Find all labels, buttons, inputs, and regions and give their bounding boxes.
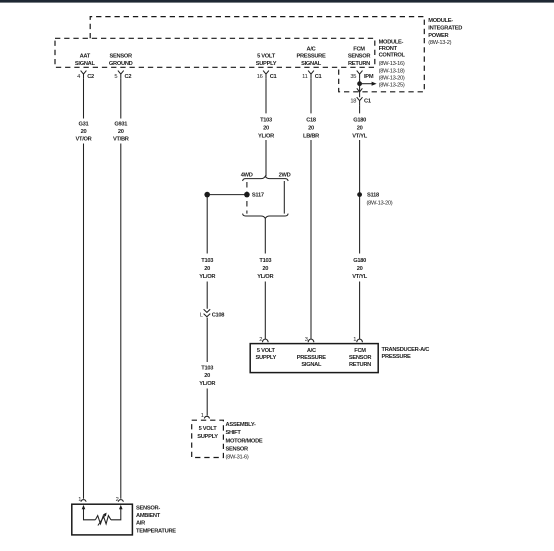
svg-text:FCM: FCM	[353, 46, 365, 52]
svg-text:AMBIENT: AMBIENT	[136, 513, 161, 519]
svg-text:SUPPLY: SUPPLY	[256, 61, 277, 67]
svg-text:(8W-13-16): (8W-13-16)	[379, 61, 405, 67]
svg-text:RETURN: RETURN	[348, 61, 370, 67]
svg-text:SUPPLY: SUPPLY	[256, 355, 277, 361]
svg-text:T103: T103	[201, 366, 213, 372]
svg-text:YL/OR: YL/OR	[258, 134, 274, 140]
svg-text:1: 1	[78, 497, 81, 503]
svg-text:SIGNAL: SIGNAL	[301, 362, 322, 368]
svg-text:A/C: A/C	[307, 46, 316, 52]
svg-text:5: 5	[114, 74, 117, 80]
svg-text:5 VOLT: 5 VOLT	[199, 426, 218, 432]
svg-text:SENSOR: SENSOR	[349, 355, 372, 361]
svg-text:VT/OR: VT/OR	[76, 137, 92, 143]
svg-text:S118: S118	[367, 193, 379, 199]
svg-text:C1: C1	[315, 74, 322, 80]
svg-text:AIR: AIR	[136, 521, 145, 527]
svg-text:5 VOLT: 5 VOLT	[257, 348, 276, 354]
svg-text:A/C: A/C	[307, 348, 316, 354]
svg-text:INTEGRATED: INTEGRATED	[428, 25, 462, 31]
svg-text:1: 1	[201, 413, 204, 419]
svg-text:11: 11	[302, 74, 307, 80]
svg-text:T103: T103	[201, 258, 213, 264]
svg-text:CONTROL: CONTROL	[379, 53, 406, 59]
svg-text:20: 20	[263, 125, 269, 131]
svg-text:PRESSURE: PRESSURE	[297, 355, 327, 361]
svg-text:(8W-13-25): (8W-13-25)	[379, 83, 405, 89]
svg-text:POWER: POWER	[428, 33, 448, 39]
svg-text:YL/OR: YL/OR	[199, 381, 215, 387]
svg-text:C1: C1	[364, 98, 371, 104]
svg-text:(8W-13-2): (8W-13-2)	[428, 40, 451, 46]
svg-text:ASSEMBLY-: ASSEMBLY-	[226, 422, 257, 428]
svg-text:(8W-31-6): (8W-31-6)	[226, 455, 249, 461]
svg-text:2WD: 2WD	[279, 173, 291, 179]
svg-text:20: 20	[357, 266, 363, 272]
svg-text:SHIFT: SHIFT	[226, 430, 242, 436]
svg-text:SENSOR: SENSOR	[226, 447, 249, 453]
svg-text:MODULE-: MODULE-	[428, 18, 453, 24]
svg-text:G931: G931	[114, 122, 127, 128]
svg-text:LB/BR: LB/BR	[303, 134, 319, 140]
svg-text:20: 20	[308, 125, 314, 131]
svg-text:G180: G180	[353, 117, 366, 123]
svg-text:MODULE-: MODULE-	[379, 39, 404, 45]
svg-text:AAT: AAT	[80, 53, 91, 59]
svg-text:20: 20	[204, 373, 210, 379]
svg-text:GROUND: GROUND	[109, 61, 133, 67]
svg-text:C108: C108	[212, 312, 225, 318]
svg-text:MOTOR/MODE: MOTOR/MODE	[226, 438, 263, 444]
svg-text:20: 20	[204, 266, 210, 272]
svg-text:2: 2	[116, 497, 119, 503]
svg-text:L: L	[200, 312, 203, 318]
svg-text:RETURN: RETURN	[349, 362, 371, 368]
svg-text:PRESSURE: PRESSURE	[382, 354, 412, 360]
svg-text:SIGNAL: SIGNAL	[75, 61, 96, 67]
svg-text:C2: C2	[87, 74, 94, 80]
svg-text:T103: T103	[260, 117, 272, 123]
svg-text:FRONT: FRONT	[379, 46, 398, 52]
svg-text:20: 20	[357, 125, 363, 131]
svg-text:S117: S117	[252, 193, 264, 199]
svg-text:SENSOR: SENSOR	[348, 53, 371, 59]
svg-text:G31: G31	[79, 122, 89, 128]
svg-text:PRESSURE: PRESSURE	[296, 53, 326, 59]
svg-text:C1: C1	[270, 74, 277, 80]
svg-text:VT/YL: VT/YL	[352, 134, 368, 140]
svg-text:18: 18	[350, 98, 356, 104]
svg-text:20: 20	[81, 129, 87, 135]
svg-text:C18: C18	[306, 117, 316, 123]
svg-text:5 VOLT: 5 VOLT	[257, 53, 276, 59]
svg-text:3: 3	[305, 337, 308, 343]
svg-text:20: 20	[118, 129, 124, 135]
svg-text:VT/YL: VT/YL	[352, 274, 368, 280]
svg-text:4: 4	[77, 74, 80, 80]
svg-text:VT/BR: VT/BR	[113, 137, 129, 143]
svg-text:2: 2	[259, 337, 262, 343]
svg-text:(8W-13-20): (8W-13-20)	[379, 75, 405, 81]
svg-text:35: 35	[350, 74, 356, 80]
svg-text:SENSOR: SENSOR	[110, 53, 133, 59]
svg-text:TRANSDUCER-A/C: TRANSDUCER-A/C	[382, 347, 430, 353]
svg-text:SIGNAL: SIGNAL	[301, 61, 322, 67]
svg-text:IPM: IPM	[364, 74, 374, 80]
svg-text:G180: G180	[353, 258, 366, 264]
svg-text:4WD: 4WD	[241, 173, 253, 179]
svg-text:YL/OR: YL/OR	[257, 274, 273, 280]
svg-text:SUPPLY: SUPPLY	[197, 434, 218, 440]
svg-text:20: 20	[262, 266, 268, 272]
svg-text:(8W-13-20): (8W-13-20)	[367, 201, 393, 207]
svg-text:FCM: FCM	[354, 348, 366, 354]
svg-text:YL/OR: YL/OR	[199, 274, 215, 280]
svg-text:(8W-13-18): (8W-13-18)	[379, 68, 405, 74]
svg-text:1: 1	[353, 337, 356, 343]
svg-text:SENSOR-: SENSOR-	[136, 505, 160, 511]
svg-text:T103: T103	[259, 258, 271, 264]
svg-text:C2: C2	[125, 74, 132, 80]
svg-text:16: 16	[257, 74, 263, 80]
svg-text:TEMPERATURE: TEMPERATURE	[136, 528, 176, 534]
